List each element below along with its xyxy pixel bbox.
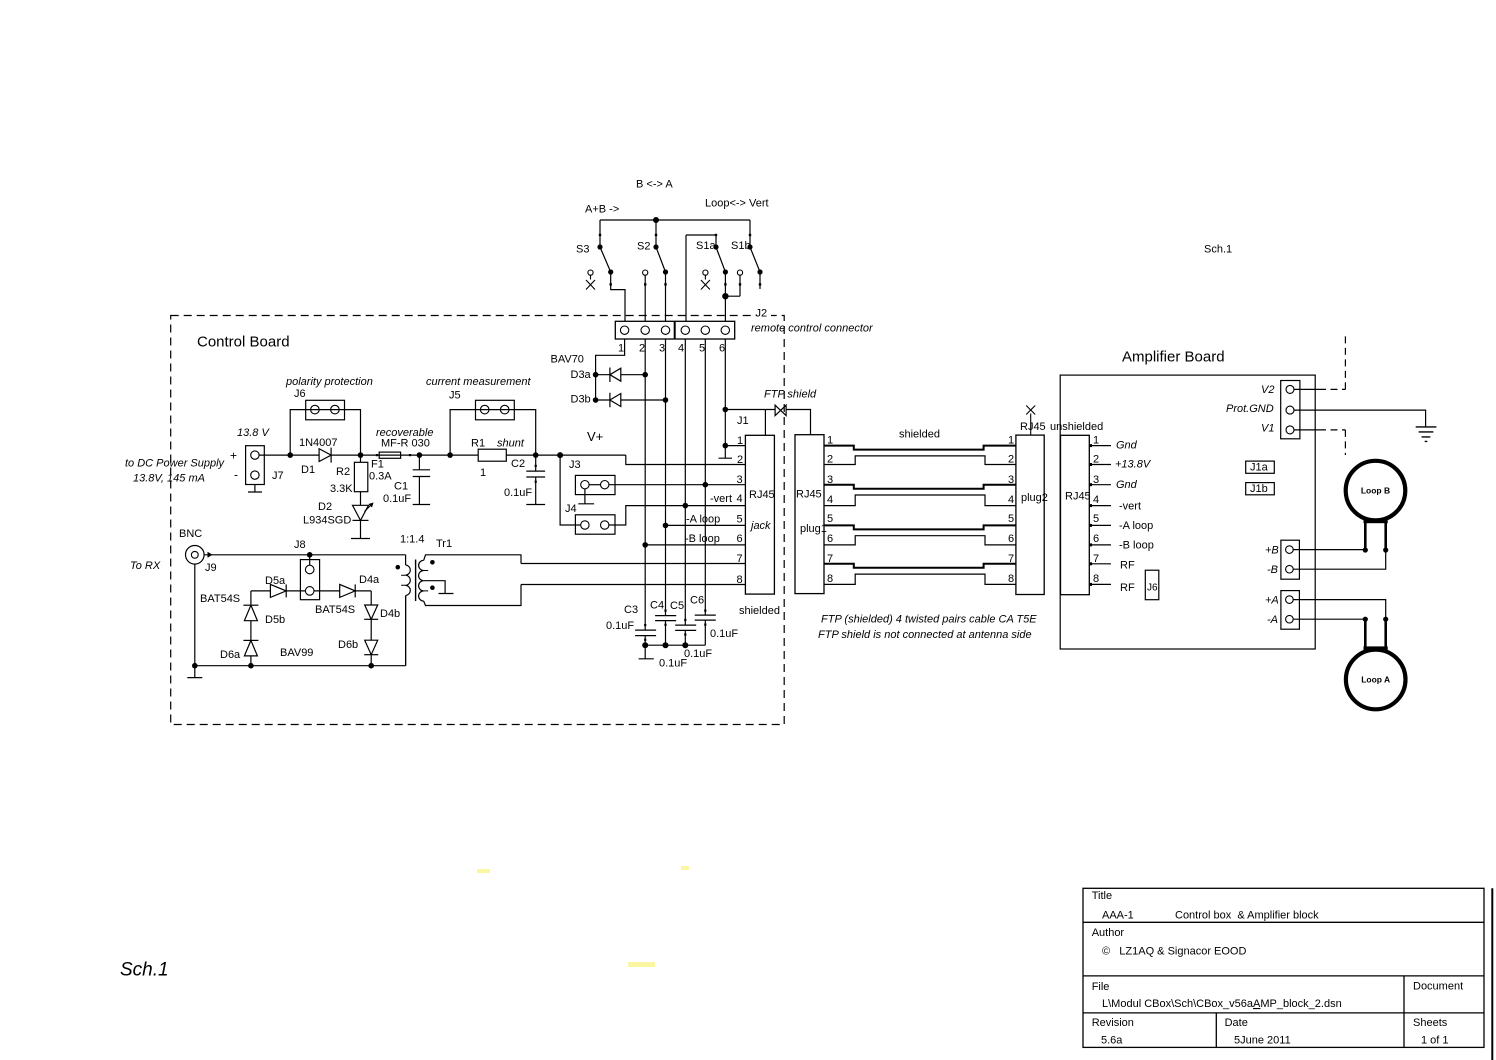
capacitor C2 [526,455,545,504]
jumper J3 [575,475,615,494]
wire jack pin5 [666,524,746,526]
svg-text:-vert: -vert [710,493,732,505]
ground D2 [351,520,370,538]
loop A flat joint [1364,646,1388,651]
node jack pin1 tee [723,443,729,449]
svg-text:remote control connector: remote control connector [751,323,874,335]
wire secondary center tap ground [424,581,454,594]
wire S3 pole stem [599,220,601,247]
svg-text:1: 1 [1093,435,1099,447]
svg-text:1 of 1: 1 of 1 [1421,1035,1449,1047]
node C1 [417,452,423,458]
svg-text:polarity protection: polarity protection [285,376,373,388]
capacitor terminal marks [644,624,646,626]
svg-text:2: 2 [1008,454,1014,466]
svg-text:J1a: J1a [1250,462,1269,474]
resistor R2 [360,455,362,462]
connector +B/-B [1281,540,1300,579]
node D6b rail [368,663,374,669]
connector J2 [615,307,771,355]
svg-text:Prot.GND: Prot.GND [1226,403,1274,415]
node jack pin5 [663,523,669,529]
wire twisted pair 4 [824,495,1016,506]
svg-text:Loop A: Loop A [1361,675,1390,685]
node J8 tap [307,552,313,558]
node loop B left [1363,547,1368,552]
node loop B right [1383,547,1388,552]
diode D5a [251,584,286,597]
wire J8 to D5a [286,590,305,592]
node D6a rail [248,663,254,669]
wire V2 dashed [1294,388,1319,390]
wire D5b to D6a [250,621,252,641]
svg-text:4: 4 [1008,494,1014,506]
connector V2/ProtGND/V1 [1281,381,1300,439]
node S1a throw [723,269,728,274]
svg-text:4: 4 [1093,494,1099,506]
wire S1b throw stub [759,272,761,289]
wire S1b pole stem [749,220,751,247]
node D3a left [593,372,599,378]
capacitor C5 [675,625,696,645]
wire S1a throw junction [725,272,740,296]
svg-text:C3: C3 [624,604,638,616]
wire shield to jack [764,410,766,436]
wire J7 to D1 [259,454,290,456]
svg-text:C6: C6 [690,595,704,607]
wire -A to loop A [1293,618,1365,620]
wire D4b to D6b [370,619,372,640]
svg-text:J6: J6 [294,388,306,400]
svg-text:Gnd: Gnd [1116,440,1138,452]
svg-text:3.3K: 3.3K [330,483,353,495]
wire +B to loop B [1293,549,1365,551]
node D1 anode [287,452,293,458]
jumper J4 [575,515,615,534]
page edge line [1491,888,1493,1060]
svg-text:C5: C5 [670,600,684,612]
switch S1b [750,247,760,272]
antenna Loop A [1346,650,1406,710]
capacitor C1 [413,455,430,504]
svg-text:1: 1 [827,435,833,447]
svg-text:6: 6 [1093,533,1099,545]
svg-text:RJ45: RJ45 [749,489,775,501]
svg-text:To RX: To RX [130,560,161,572]
wire twisted pair 6 [824,536,1016,545]
wire twisted pair 2 [824,456,1016,465]
svg-text:S1a: S1a [696,240,716,252]
svg-text:shielded: shielded [739,605,780,617]
svg-text:D5a: D5a [265,575,286,587]
wire J2 pin2 vertical [644,339,646,630]
wire Prot.GND to earth [1294,410,1426,427]
node J4 tap [557,452,563,458]
switch S3 [600,247,611,272]
node S1a pole [713,244,718,249]
wire J4 to jack pin4 [609,506,746,525]
svg-text:D2: D2 [318,501,332,513]
wire D6a to rail [250,656,252,666]
C2 terminal marks [535,465,537,467]
BNC J9 [186,546,205,565]
LED D2 [353,505,369,520]
svg-text:Gnd: Gnd [1116,479,1138,491]
svg-text:Tr1: Tr1 [436,538,452,550]
ground J3 [578,489,594,504]
svg-text:-B loop: -B loop [685,533,720,545]
svg-text:J1: J1 [737,415,749,427]
svg-text:5: 5 [737,513,743,525]
svg-text:7: 7 [1008,553,1014,565]
connector J7 [246,446,265,485]
svg-text:RF: RF [1120,560,1135,572]
node S2 pole [653,244,658,249]
node S2 throw [663,269,668,274]
resistor R1 shunt [450,454,478,456]
svg-text:D4a: D4a [359,574,380,586]
svg-text:0.1uF: 0.1uF [504,487,532,499]
svg-text:A+B ->: A+B -> [585,204,619,216]
wire J2 pin4 vertical [684,339,686,625]
wire to jack pin8 [521,584,745,586]
wire V1 dashed [1294,429,1319,431]
svg-text:0.3A: 0.3A [369,471,392,483]
svg-text:3: 3 [827,474,833,486]
wire twisted pair 3 [824,485,1016,489]
diode D4b [365,605,378,619]
svg-text:J4: J4 [565,503,577,515]
svg-text:+: + [230,449,237,463]
wire J2 pin6 vertical [719,339,733,458]
svg-text:-: - [234,468,238,482]
svg-text:2: 2 [639,343,645,355]
svg-text:unshielded: unshielded [1050,421,1103,433]
wire twisted pair 7 [824,564,1016,568]
svg-text:S1b: S1b [731,240,751,252]
svg-text:-B loop: -B loop [1119,540,1154,552]
svg-text:J9: J9 [205,562,217,574]
svg-text:to DC Power Supply: to DC Power Supply [125,458,226,470]
ground J7 [248,485,262,493]
wire J8 stem [309,555,311,565]
svg-text:13.8 V: 13.8 V [237,427,270,439]
svg-text:2: 2 [827,454,833,466]
switch S1a second contact [737,270,742,275]
connector RJ45 amplifier jack [1061,435,1090,594]
fuse F1 [361,454,380,456]
wire BNC to Tr1 [204,554,406,556]
svg-text:J3: J3 [569,459,581,471]
svg-text:0.1uF: 0.1uF [684,648,712,660]
svg-text:8: 8 [737,574,743,586]
svg-text:1: 1 [1008,435,1014,447]
svg-text:7: 7 [827,553,833,565]
node J5 left [447,452,453,458]
svg-text:shielded: shielded [899,429,940,441]
svg-text:J5: J5 [449,390,461,402]
wire D4a to D4b [370,591,372,605]
svg-text:0.1uF: 0.1uF [383,493,411,505]
wire D5a to D5b [250,591,252,605]
svg-text:6: 6 [719,343,725,355]
wire J2 pin1 to diodes [596,339,625,400]
svg-text:RJ45: RJ45 [796,489,822,501]
svg-text:Title: Title [1092,890,1112,902]
svg-text:-A: -A [1267,614,1278,626]
svg-text:File: File [1092,981,1110,993]
plug2 shield stub with X (not connected) [1026,406,1035,436]
node jack pin4 [683,503,689,509]
jumper J8 [300,560,319,600]
connector +A/-A [1281,591,1300,630]
wire -B to loop B [1293,550,1386,569]
wire jack pin6 [645,544,745,546]
node D3b left [593,397,599,403]
earth ground symbol [1416,427,1437,442]
svg-text:B <-> A: B <-> A [636,179,673,191]
svg-text:F1: F1 [371,459,384,471]
svg-text:1N4007: 1N4007 [299,437,338,449]
svg-text:Loop B: Loop B [1361,486,1390,496]
svg-text:Sch.1: Sch.1 [120,960,169,981]
svg-text:AAA-1: AAA-1 [1102,910,1134,922]
wire J2 pin6 to jack pin1 [725,445,745,447]
wire FTP shield from J2 pin6 [725,409,775,411]
wire bottom return rail [195,596,406,666]
svg-text:L934SGD: L934SGD [303,515,351,527]
svg-text:Sch.1: Sch.1 [1204,244,1232,256]
fuse terminal marks [376,454,378,456]
wire S2 throw to J2 pin3 [665,272,667,321]
amplifier RJ45 pin stub wires [1089,445,1111,447]
svg-text:0.1uF: 0.1uF [606,620,634,632]
wire S3 throw to J2 pin1 [611,272,625,321]
node jack pin3 [703,482,709,488]
wire BNC shell down [194,564,196,666]
jumper J6 [306,400,345,420]
svg-text:5June 2011: 5June 2011 [1234,1035,1291,1047]
svg-text:6: 6 [1008,533,1014,545]
svg-text:0.1uF: 0.1uF [710,628,738,640]
switch S1a [716,247,725,272]
svg-text:D6a: D6a [220,649,241,661]
svg-text:D4b: D4b [380,608,400,620]
wire +A to loop A [1293,600,1386,620]
wire jumper J5 loop [450,410,536,456]
diode D3b [596,393,666,407]
wire D6b to rail [370,655,372,666]
node top rail junction [653,217,659,223]
svg-text:2: 2 [1093,454,1099,466]
connector RJ45 plug1 [795,435,824,594]
svg-text:Control box & Amplifier block: Control box & Amplifier block [1175,910,1319,922]
diode D4a [340,584,356,597]
svg-text:Loop<-> Vert: Loop<-> Vert [705,198,769,210]
svg-text:+B: +B [1265,545,1279,557]
svg-text:1: 1 [737,435,743,447]
BNC arrow [208,552,213,558]
transformer Tr1 secondary [419,560,424,601]
svg-text:Sheets: Sheets [1413,1017,1448,1029]
Tr1 phase dot secondary tap [430,585,435,590]
svg-text:jack: jack [749,520,771,532]
jumper J5 [476,400,515,420]
svg-text:S2: S2 [637,241,650,253]
switch S2 [656,247,666,272]
node S1a junction [722,293,728,299]
node D3b right [663,397,669,403]
title block [1083,888,1492,1060]
svg-text:V+: V+ [587,429,603,444]
diode D6a [243,639,258,641]
wire J2 pin6 top [724,296,726,321]
svg-text:C4: C4 [650,600,664,612]
transformer Tr1 primary [406,555,411,666]
svg-text:D3b: D3b [571,394,591,406]
svg-text:Document: Document [1413,981,1463,993]
wire twisted pair 5 [824,525,1016,529]
svg-text:-A loop: -A loop [686,513,720,525]
svg-text:plug2: plug2 [1021,492,1048,504]
node S3 throw [608,269,613,274]
antenna Loop B [1346,461,1406,521]
FTP shield bowtie symbol [775,405,781,415]
svg-text:L\Modul CBox\Sch\CBox_v56aAMP_: L\Modul CBox\Sch\CBox_v56aAMP_block_2.ds… [1102,998,1342,1010]
control board dashed border [171,316,785,725]
terminal squares switches [599,234,761,286]
svg-text:-B: -B [1267,564,1278,576]
wire V+ rail to jack pin2 [536,455,746,464]
wire J8 to D4a [314,590,340,592]
svg-text:BAT54S: BAT54S [315,604,355,616]
svg-text:MF-R 030: MF-R 030 [381,438,430,450]
svg-text:Author: Author [1092,927,1125,939]
svg-text:8: 8 [1008,573,1014,585]
node S3 pole [597,244,602,249]
svg-text:+A: +A [1265,595,1279,607]
svg-text:J7: J7 [272,470,284,482]
svg-text:3: 3 [737,474,743,486]
svg-text:-A loop: -A loop [1119,520,1153,532]
ground BNC [187,666,202,678]
svg-text:BAV99: BAV99 [280,647,313,659]
node C3 gnd [642,642,648,648]
wire capacitor ground rail [645,644,705,646]
svg-text:D1: D1 [301,464,315,476]
ground C3 [639,645,654,659]
svg-text:1: 1 [618,343,624,355]
svg-text:RJ45: RJ45 [1065,491,1091,503]
switch S2 nc contact to J2 pin2 [643,270,648,275]
loop B flat joint [1364,519,1388,524]
wire J3 to jack pin3 [609,484,746,486]
node C4 gnd [663,642,669,648]
svg-text:8: 8 [1093,573,1099,585]
scan artifacts [477,866,689,967]
svg-text:shunt: shunt [497,438,525,450]
svg-text:7: 7 [1093,553,1099,565]
svg-text:4: 4 [737,493,743,505]
node D1 cathode [358,452,364,458]
svg-text:0.1uF: 0.1uF [659,658,687,670]
svg-text:R2: R2 [336,466,350,478]
wire rail F1 to J5 [419,454,450,456]
wire top switch rail [600,219,750,221]
svg-text:J8: J8 [294,539,306,551]
diode D6b [365,640,378,655]
switch S3 unused contact [586,270,595,290]
svg-text:J2: J2 [756,308,768,320]
svg-text:RJ45: RJ45 [1020,421,1046,433]
connector J6 amplifier [1145,570,1159,600]
node D3a right [642,372,648,378]
svg-text:FTP shield: FTP shield [764,389,817,401]
svg-text:FTP (shielded) 4 twisted pairs: FTP (shielded) 4 twisted pairs cable CA … [821,614,1037,626]
wire J2 pin3 vertical [665,339,667,616]
capacitor C3 [635,630,656,645]
svg-text:4: 4 [827,494,833,506]
svg-text:BAV70: BAV70 [551,354,584,366]
svg-text:3: 3 [659,343,665,355]
amplifier board outline [1060,375,1315,649]
transformer Tr1 core [415,560,417,602]
node loop A right [1383,617,1388,622]
svg-text:-vert: -vert [1119,501,1141,513]
diode D3a [596,368,646,383]
svg-text:BAT54S: BAT54S [200,593,240,605]
node C2 [533,452,539,458]
svg-text:R1: R1 [471,438,485,450]
svg-text:V2: V2 [1261,384,1274,396]
svg-text:FTP shield is not connected at: FTP shield is not connected at antenna s… [818,629,1032,641]
wire secondary bottom lead / cable bottom [424,585,521,606]
node jack pin6 [642,542,648,548]
svg-text:Amplifier Board: Amplifier Board [1122,349,1225,366]
svg-text:Revision: Revision [1092,1017,1134,1029]
svg-text:D6b: D6b [338,639,358,651]
Tr1 phase dot primary [396,565,401,570]
wire J4 to V+ rail [560,455,581,525]
node C5 gnd [682,642,688,648]
diode D1 1N4007 [290,448,360,463]
svg-text:3: 3 [1008,474,1014,486]
svg-text:© LZ1AQ & Signacor EOOD: © LZ1AQ & Signacor EOOD [1102,946,1246,958]
svg-text:5: 5 [1093,513,1099,525]
svg-text:6: 6 [827,533,833,545]
svg-text:1:1.4: 1:1.4 [400,534,424,546]
svg-text:+13.8V: +13.8V [1115,459,1152,471]
switch S1a unused contact [701,270,710,290]
diode D5b [243,604,258,606]
node shield tee [723,407,729,413]
svg-text:5: 5 [1008,513,1014,525]
connector RJ45 plug2 [1016,435,1044,594]
svg-text:3: 3 [1093,474,1099,486]
wire J2 pin4 vertical to S1a [685,235,687,321]
svg-text:V1: V1 [1261,423,1274,435]
wire S1a top link [686,235,716,247]
connector J1 RJ45 jack [745,435,774,594]
svg-text:J6: J6 [1147,583,1158,594]
wire J2 pin5 vertical [704,339,706,615]
svg-text:C1: C1 [394,481,408,493]
svg-text:D5b: D5b [265,614,285,626]
wire jumper J6 loop [290,410,360,456]
node BNC rail [192,663,198,669]
wire secondary top lead / cable top [424,555,521,564]
svg-text:C2: C2 [511,458,525,470]
